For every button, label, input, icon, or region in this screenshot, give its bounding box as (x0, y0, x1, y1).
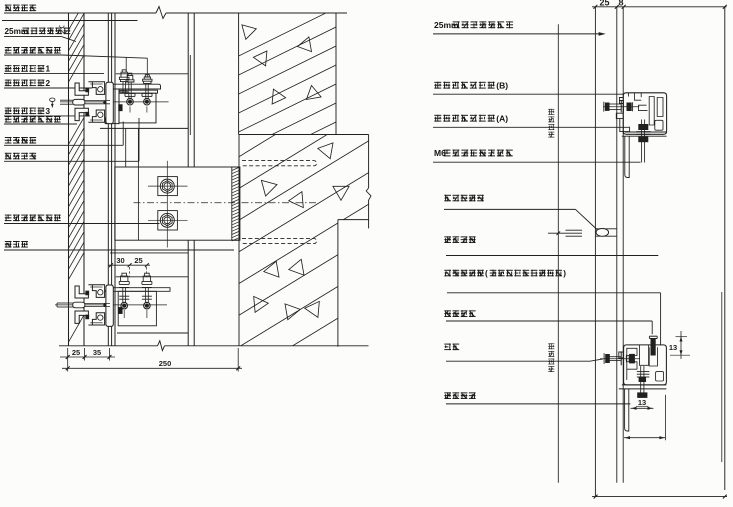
top dim line (592, 6, 727, 8)
lower centerline (55, 304, 167, 306)
R bottom nut2 (638, 393, 647, 398)
triangle cl2 (261, 180, 277, 196)
triangle cl6 (264, 261, 279, 277)
R bottom nut1 (639, 377, 646, 382)
bolt U2 tail dash (146, 107, 148, 113)
R bottom dim arrow l (625, 436, 630, 439)
leader diagonal sealant (576, 209, 598, 229)
lower nib a (86, 291, 89, 295)
lower round bar (106, 285, 113, 326)
side bolt phi symbol (50, 98, 55, 102)
svg-text:35: 35 (93, 348, 101, 357)
leader for 铝合金挂件2 (4, 87, 92, 89)
R vert bolt nut1 (639, 124, 648, 129)
embed bolt1 inner circle (164, 183, 171, 190)
embed bolt1 circle (160, 179, 174, 193)
stone top edge line (2, 20, 138, 22)
grid dim line vertical (557, 24, 559, 482)
top section line (4, 12, 156, 14)
mullion line b (111, 13, 113, 346)
lower bolt1 nut (121, 302, 128, 309)
lower bolt2 nut (144, 302, 151, 309)
label left 幕墙立柱 (5, 5, 36, 12)
leader right 铝合金石材挂件（B） (433, 93, 624, 95)
svg-text:3: 3 (46, 107, 51, 116)
leader for 不锈钢螺栓组件 (4, 123, 77, 125)
leader for 幕墙横梁 (4, 160, 139, 162)
stone panel hatch (69, 3, 85, 342)
dim13v arrow bot (680, 350, 683, 355)
dim ext c (109, 348, 111, 361)
dim2535 line (60, 356, 115, 358)
svg-text:1: 1 (46, 65, 51, 74)
dim3025 tick2 (128, 263, 132, 267)
dim2535 t2 (83, 355, 87, 359)
bottom dim line R (592, 496, 727, 498)
svg-text:250: 250 (159, 359, 172, 368)
leader right 摩擦固定片（每四个挂点设置一个） (447, 292, 661, 294)
leader for 25mm厚磨光花岗岩 (4, 36, 62, 38)
small mark stone top (60, 26, 67, 33)
leader right 25mm厚光面花岗石板 (433, 33, 601, 35)
R top hanger B (620, 98, 624, 104)
dim250 ext left (67, 361, 69, 372)
extrusion clip2 upper left (75, 83, 88, 95)
triangle cl7 (254, 296, 269, 312)
leader right 铝合金石材挂件（A） (433, 126, 629, 128)
break symbol top (156, 7, 166, 19)
svg-text:8: 8 (618, 0, 623, 8)
lower clip2 upper left (75, 286, 88, 298)
right wall line (724, 7, 726, 490)
leader right M6不锈钢六角头螺栓 (433, 161, 641, 163)
concrete upper edges (238, 13, 240, 135)
lower body box (118, 291, 156, 326)
svg-text:30: 30 (116, 256, 124, 265)
R top angle plate (625, 131, 667, 133)
triangle cl9 (305, 301, 320, 317)
vertical text grid dim 1 (548, 109, 554, 138)
R top bolt centerline (603, 106, 639, 108)
extrusion nut right (119, 105, 123, 111)
bolt centerline drop 1 (125, 57, 127, 72)
R top bracket slot1 (649, 97, 654, 126)
top dim t4 (723, 5, 727, 9)
leader for 横梁角码 (4, 144, 123, 146)
sealant ellipse (596, 229, 609, 237)
label left 预埋件 (5, 241, 28, 248)
lower bolt1 shaft (122, 287, 124, 302)
right wall line b (721, 292, 723, 462)
R adjust bolt shaft (651, 339, 655, 356)
leader vertical muqianghengliang (138, 118, 140, 161)
leader right 镀锌钢通 (446, 255, 658, 257)
dim13v line (680, 331, 682, 359)
R anchor bolt head (606, 354, 610, 362)
ground line (59, 345, 158, 347)
hanger body box (119, 93, 156, 123)
R bottom channel2 (640, 345, 649, 365)
beam flange line lower (116, 276, 188, 278)
triangle cl5 (289, 259, 304, 275)
R adjust bolt slot (649, 347, 657, 366)
R anchor centerline (600, 358, 640, 360)
leader right 镀锌角钢 (446, 403, 630, 405)
dim ext b (84, 348, 86, 361)
svg-text:2: 2 (46, 79, 51, 88)
lower bolt2 head (142, 273, 152, 287)
side bolt diamond (103, 100, 107, 104)
R top angle leg (625, 136, 629, 177)
R top bolt head (605, 103, 609, 111)
dim13h underline (636, 405, 649, 407)
R bottom bracket body (624, 345, 667, 385)
svg-text:25: 25 (599, 0, 609, 8)
leader anchor tail (590, 359, 603, 361)
embed bolt2 crosshair h (148, 219, 188, 221)
leader drop adjust bolt (651, 321, 653, 334)
extrusion round bar (106, 82, 113, 123)
label left 不锈钢螺栓组件 (5, 47, 61, 54)
leader right 调节螺栓 (446, 320, 652, 322)
sealant dim lower (566, 235, 583, 237)
side bolt mid bars (85, 100, 110, 102)
top dim t2 (615, 5, 619, 9)
dim3025 line (108, 264, 150, 266)
beam inner vertical (125, 128, 127, 167)
hanger plate (119, 90, 158, 93)
angle bracket leg (105, 89, 119, 124)
leader for 预埋件 (4, 249, 234, 251)
svg-text:): ) (563, 269, 566, 278)
R top bolt nut (627, 103, 631, 111)
R top hanger A (616, 113, 629, 134)
triangle cu5 (306, 86, 321, 100)
R top bolt washer (620, 100, 622, 112)
bolt U2 nut (144, 98, 151, 105)
R top bolt shaft (609, 103, 621, 105)
label right 镀锌钢通 (444, 236, 475, 243)
R bottom dim ext (664, 395, 666, 441)
R bottom hole (656, 372, 664, 381)
R bottom dim line (624, 437, 665, 439)
lower side bolt shaft (57, 302, 73, 304)
embed bolt1 hex (163, 181, 173, 192)
leader right 锚栓 (446, 360, 590, 362)
beam flange line upper (110, 252, 188, 254)
concrete lower edges (368, 135, 370, 189)
label left 横梁角码 (5, 137, 36, 144)
embed bolt2 circle (160, 213, 174, 227)
extrusion hook upper inner (98, 87, 103, 92)
top dim t1 (593, 5, 597, 9)
side bolt shaft (60, 99, 73, 101)
R anchor bolt shaft (609, 356, 621, 358)
embed bolt1 crosshair h (148, 185, 188, 187)
leader for 不锈钢螺栓组件 (4, 54, 62, 56)
lower side bolt pill (73, 302, 85, 308)
bolt U1 nut (127, 98, 134, 105)
triangle cl1 (318, 143, 333, 159)
R vert bolt nut2 (639, 137, 648, 142)
lower bolt2 washer (142, 295, 152, 297)
lower hook upper right (88, 285, 104, 298)
dim250 line (62, 367, 242, 369)
R bottom dim arrow r (659, 436, 664, 439)
R bottom washer lines (637, 371, 650, 373)
label left 不锈钢螺栓组件 (5, 215, 61, 222)
triangle cu1 (242, 25, 256, 39)
beam mid line (100, 127, 188, 129)
sealant dim upper (566, 229, 583, 231)
triangle cu2 (298, 37, 312, 52)
embed bolt centerline v (166, 161, 168, 248)
dim3025 ext1 (129, 267, 131, 277)
lower hook lower right (88, 313, 104, 325)
dim13v ref top (676, 336, 688, 338)
bolt U2 head (143, 75, 152, 84)
lower bolt1 tail (123, 310, 125, 318)
R bottom nut shaft (640, 366, 642, 393)
bottom dim t2 (723, 495, 727, 499)
leader slope stainless bolt (62, 55, 148, 58)
svg-text:25: 25 (134, 256, 142, 265)
mullion line c (114, 13, 116, 346)
R bottom angle plate (622, 384, 667, 386)
vertical text grid dim 2 (548, 343, 554, 372)
label right 调节螺栓 (444, 310, 475, 317)
embed bolt1 square (158, 177, 178, 196)
lower side bolt mid bars (85, 302, 110, 304)
sealant dim tick (557, 231, 561, 235)
svg-text:25: 25 (72, 348, 80, 357)
triangle cl8 (285, 304, 300, 320)
R vert bolt shaft (641, 120, 643, 163)
side bolt pill head (73, 99, 85, 105)
bolt U1 head (119, 70, 129, 82)
dim3025 tick3 (145, 263, 149, 267)
embed plate band hatch (232, 167, 240, 171)
dim250 t2 (236, 366, 240, 370)
svg-text:13: 13 (669, 343, 677, 352)
leader for 不锈钢螺栓组件 (4, 223, 160, 225)
bottom dim t1 (594, 495, 598, 499)
leader vertical hengliangjiaoma (122, 122, 124, 146)
hanger plate serration (119, 90, 121, 93)
stone joint top line (595, 228, 616, 230)
R adjust bolt washer (649, 335, 657, 337)
lower hook upper inner (98, 290, 103, 295)
lower nib b (86, 315, 89, 319)
beam bottom line (117, 332, 188, 334)
leader right 石材密封胶 (444, 208, 576, 210)
leader diagonal 25mm granite (62, 37, 77, 42)
anchor stud top (242, 161, 317, 166)
dim13v arrow top (680, 337, 683, 342)
R top bracket body (623, 93, 666, 135)
bolt U1b head (126, 73, 134, 82)
embed centerline dashdot (134, 202, 319, 204)
leader drop friction clip (660, 293, 662, 345)
R top bracket hole (655, 120, 663, 130)
dim13h arrow r (648, 407, 653, 410)
leader arrow stone panel (599, 32, 606, 36)
R bottom hanger lip (619, 352, 624, 358)
frame right edge a (187, 13, 189, 167)
angle bracket top arm (109, 84, 160, 89)
lower bolt2 shaft (145, 287, 147, 302)
embed plate outline (115, 167, 240, 240)
embed bolt2 square (158, 211, 178, 230)
lower bolt1 washer (119, 295, 129, 297)
dim ext d (237, 348, 239, 372)
concrete lower hatch (239, 75, 373, 410)
stone R left edge (594, 7, 596, 497)
embed plate edge band (232, 167, 240, 240)
stone panel left edge (68, 13, 70, 346)
R anchor bolt washer (620, 352, 622, 365)
beam top line (116, 73, 188, 75)
upper centerline (60, 101, 169, 103)
svg-text:13: 13 (638, 398, 646, 407)
triangle cl3 (289, 192, 304, 208)
lower nut right (119, 307, 123, 313)
dim13h line (631, 407, 654, 409)
anchor stud bottom (242, 238, 317, 243)
mullion line a (107, 13, 109, 346)
triangle cl4 (333, 186, 349, 200)
stone panel right edge (83, 13, 85, 346)
R bottom hook1 (627, 348, 637, 380)
svg-text:(: ( (485, 269, 488, 278)
dim2535 t1 (66, 355, 70, 359)
triangle cu3 (253, 51, 267, 66)
R vert bolt washer (636, 131, 650, 133)
extrusion hook lower right (88, 110, 104, 122)
lower bolt2 tail (146, 310, 148, 318)
svg-text:(A): (A) (496, 113, 508, 123)
sealant dim line (548, 232, 582, 234)
extrusion clip3 lower left (75, 108, 88, 120)
dim3025 ext2 (146, 267, 148, 277)
leader for 铝合金挂件3 (4, 115, 90, 117)
extrusion nib lower (86, 112, 89, 116)
leader for 铝合金挂件1 (4, 73, 104, 75)
embed bolt2 inner circle (164, 217, 171, 224)
dim3025 tick1 (109, 263, 113, 267)
dim250 t1 (66, 366, 70, 370)
concrete upper hatch (239, 8, 336, 227)
R bottom angle leg (625, 389, 629, 431)
bolt U1 washer (125, 92, 135, 94)
label right 镀锌角钢 (444, 392, 475, 399)
triangle cu4 (272, 89, 286, 104)
top dim t3 (622, 5, 626, 9)
extrusion hook lower inner (98, 112, 103, 117)
lower side bolt diamond (103, 303, 107, 307)
lower hook lower inner (98, 315, 103, 320)
bolt U1 shaft (128, 82, 130, 99)
beam web vertical (137, 128, 139, 240)
lower bolt1 head (119, 273, 129, 287)
dim ext a (67, 348, 69, 361)
label left 不锈钢螺栓组件 (5, 116, 61, 123)
structure face line (622, 7, 624, 483)
svg-text:(B): (B) (496, 80, 508, 90)
R top bracket hook1 (629, 93, 648, 111)
ground break (158, 341, 165, 351)
bolt U2 shaft (145, 83, 147, 98)
stone joint bottom line (595, 235, 616, 237)
label left 幕墙横梁 (5, 153, 36, 160)
bolt U1 tail dash (129, 107, 131, 113)
stone R right edge (616, 7, 618, 483)
label right 锚栓 (444, 344, 459, 351)
extrusion hook upper right (88, 82, 104, 95)
embed bolt2 hex (163, 215, 173, 226)
bolt centerline drop 2 (146, 58, 148, 77)
extrusion nib upper (86, 88, 89, 92)
R top bracket slot2 (657, 98, 663, 117)
dim13v ref bot (670, 354, 690, 356)
dim13h arrow l (632, 407, 637, 410)
frame right edge b (193, 13, 195, 167)
label right 石材密封胶 (444, 195, 484, 202)
lower clip3 lower left (75, 311, 88, 323)
bolt U2 washer (142, 92, 152, 94)
R anchor bolt nut (626, 355, 629, 361)
dim2535 t3 (108, 355, 112, 359)
concrete divider line (239, 134, 369, 136)
lower plate (105, 288, 171, 292)
